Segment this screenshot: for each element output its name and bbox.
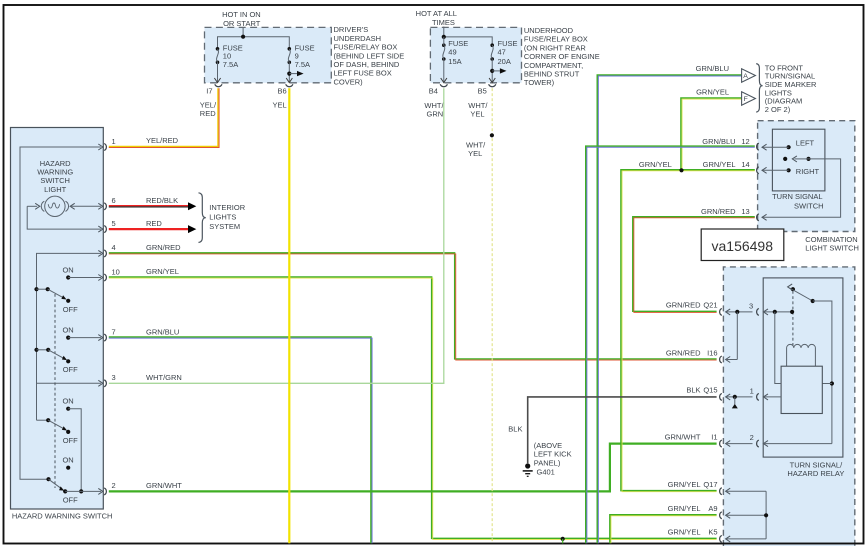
svg-text:12: 12 bbox=[741, 137, 749, 146]
wire BLK: relay Q15 to ground G401 bbox=[528, 397, 717, 463]
svg-text:WHT/GRN: WHT/GRN bbox=[146, 373, 182, 382]
fuse 47 20A bbox=[489, 39, 517, 83]
wire GRN/YEL: switch pin14 row to relay Q17 bbox=[621, 170, 755, 491]
svg-text:I1: I1 bbox=[711, 432, 717, 441]
svg-text:LIGHT: LIGHT bbox=[44, 185, 67, 194]
svg-text:YEL: YEL bbox=[273, 101, 287, 110]
relay rows Q17/A9/K5 link bbox=[726, 488, 769, 542]
connector I16 bbox=[720, 356, 722, 363]
svg-text:DRIVER'S: DRIVER'S bbox=[334, 25, 369, 34]
svg-text:GRN: GRN bbox=[427, 110, 444, 119]
svg-text:2: 2 bbox=[750, 433, 754, 442]
switch section 4 (pin 2) bbox=[46, 456, 103, 505]
hazard warning switch bbox=[11, 128, 104, 510]
svg-text:RED: RED bbox=[146, 219, 162, 228]
relay inner case bbox=[763, 278, 843, 457]
wire: hot feed into driver fuse box bbox=[242, 27, 244, 36]
svg-text:YEL/RED: YEL/RED bbox=[146, 136, 179, 145]
switch section 1 (pin 10) bbox=[34, 266, 103, 315]
svg-text:LIGHT SWITCH: LIGHT SWITCH bbox=[805, 244, 859, 253]
svg-text:OFF: OFF bbox=[63, 436, 78, 445]
switch section 3 bbox=[37, 397, 82, 492]
svg-text:GRN/WHT: GRN/WHT bbox=[146, 481, 182, 490]
svg-text:1: 1 bbox=[750, 386, 754, 395]
connector pin 13 bbox=[757, 214, 759, 221]
svg-text:GRN/YEL: GRN/YEL bbox=[639, 160, 672, 169]
svg-text:6: 6 bbox=[112, 196, 116, 205]
svg-text:SWITCH: SWITCH bbox=[794, 202, 824, 211]
node: fuse box L top junction bbox=[241, 35, 245, 39]
svg-text:GRN/YEL: GRN/YEL bbox=[146, 267, 179, 276]
wire GRN/BLU: to triangle A, down off page bbox=[597, 75, 741, 543]
relay row 2 / I1 bbox=[726, 433, 832, 447]
va156498 label box bbox=[701, 229, 784, 261]
svg-text:GRN/BLU: GRN/BLU bbox=[696, 64, 729, 73]
connector triangle A bbox=[742, 69, 756, 82]
svg-text:OFF: OFF bbox=[63, 496, 78, 505]
svg-text:HOT AT ALL: HOT AT ALL bbox=[416, 9, 457, 18]
node: K5 wire junction bbox=[561, 537, 565, 541]
wire YEL: fuse B6 down off page bbox=[288, 88, 290, 543]
wire WHT/YEL: fuse B5 down off page bbox=[491, 88, 493, 543]
svg-text:INTERIOR: INTERIOR bbox=[209, 203, 245, 212]
svg-text:BLK: BLK bbox=[508, 425, 522, 434]
svg-text:B5: B5 bbox=[478, 86, 487, 95]
svg-text:G401: G401 bbox=[537, 467, 555, 476]
turn signal / hazard relay box bbox=[723, 267, 854, 546]
svg-text:HAZARD WARNING SWITCH: HAZARD WARNING SWITCH bbox=[12, 512, 113, 521]
connector Q21 bbox=[720, 308, 722, 315]
svg-text:GRN/WHT: GRN/WHT bbox=[665, 432, 701, 441]
svg-text:5: 5 bbox=[112, 219, 116, 228]
svg-text:WARNING: WARNING bbox=[37, 168, 73, 177]
relay electronics box bbox=[781, 366, 822, 413]
connector Q15 bbox=[720, 393, 722, 400]
svg-text:COMPARTMENT,: COMPARTMENT, bbox=[524, 61, 583, 70]
svg-text:va156498: va156498 bbox=[712, 238, 774, 254]
svg-text:TOWER): TOWER) bbox=[524, 78, 555, 87]
svg-text:RED/BLK: RED/BLK bbox=[146, 196, 178, 205]
wire GRN/RED: switch pin13 to relay Q21 bbox=[633, 217, 755, 312]
pin 2 connector bbox=[104, 488, 106, 495]
svg-text:ON: ON bbox=[62, 397, 73, 406]
svg-text:Q21: Q21 bbox=[703, 301, 717, 310]
svg-text:7: 7 bbox=[112, 327, 116, 336]
turn signal switch RIGHT contact bbox=[762, 167, 820, 176]
svg-text:WHT/: WHT/ bbox=[468, 101, 488, 110]
svg-text:OR START: OR START bbox=[223, 19, 261, 28]
turn signal switch wiper bbox=[783, 156, 811, 162]
connector B6 bbox=[286, 84, 293, 86]
svg-text:4: 4 bbox=[112, 243, 116, 252]
wire: hot feed into underhood fuse box bbox=[443, 27, 445, 37]
wire: relay contact to pin 2 net bbox=[813, 301, 832, 444]
pin 10 connector bbox=[104, 274, 106, 281]
svg-text:F: F bbox=[744, 96, 748, 103]
turn signal switch bbox=[772, 129, 825, 191]
svg-text:FUSE/RELAY BOX: FUSE/RELAY BOX bbox=[524, 35, 588, 44]
wire: lamp to pin 5 bbox=[27, 206, 101, 229]
node B6 branch bbox=[287, 72, 291, 76]
svg-text:GRN/YEL: GRN/YEL bbox=[668, 528, 701, 537]
svg-text:LEFT KICK: LEFT KICK bbox=[534, 450, 572, 459]
svg-text:FUSE/RELAY BOX: FUSE/RELAY BOX bbox=[334, 43, 398, 52]
svg-text:1: 1 bbox=[112, 137, 116, 146]
svg-text:GRN/YEL: GRN/YEL bbox=[696, 87, 729, 96]
pin 5 connector bbox=[104, 226, 106, 233]
svg-text:UNDERDASH: UNDERDASH bbox=[334, 34, 382, 43]
turn signal switch LEFT contact bbox=[762, 139, 815, 151]
pin 7 connector bbox=[104, 334, 106, 341]
svg-text:LIGHTS: LIGHTS bbox=[209, 213, 236, 222]
node: WHT/YEL splice bbox=[490, 133, 494, 137]
wire RED/BLK: pin6 to interior lights bbox=[109, 205, 188, 207]
svg-text:COVER): COVER) bbox=[334, 77, 364, 86]
svg-text:GRN/RED: GRN/RED bbox=[701, 207, 736, 216]
svg-text:GRN/YEL: GRN/YEL bbox=[668, 480, 701, 489]
driver's underdash fuse/relay box bbox=[205, 27, 332, 82]
fuse 9 7.5A bbox=[286, 43, 314, 82]
mechanical link (dashed) bbox=[54, 294, 56, 488]
svg-text:7.5A: 7.5A bbox=[223, 60, 238, 69]
pin 1 connector bbox=[104, 144, 106, 151]
svg-text:3: 3 bbox=[112, 373, 116, 382]
svg-text:I16: I16 bbox=[707, 348, 717, 357]
connector B5 bbox=[489, 84, 496, 86]
svg-text:GRN/YEL: GRN/YEL bbox=[668, 504, 701, 513]
svg-text:LEFT: LEFT bbox=[796, 139, 815, 148]
svg-text:WHT/: WHT/ bbox=[424, 101, 444, 110]
svg-text:2: 2 bbox=[112, 481, 116, 490]
svg-text:Q17: Q17 bbox=[703, 480, 717, 489]
wire YEL/RED: pin1 to fuse I7 bbox=[109, 88, 218, 146]
relay row 1 / Q15 bbox=[726, 386, 782, 408]
node B5 branch bbox=[490, 69, 494, 73]
pin 4 connector bbox=[104, 250, 106, 257]
wire: row3 branch into electronics bbox=[775, 312, 781, 384]
combination light switch box bbox=[758, 121, 855, 232]
fuse 49 15A bbox=[441, 37, 469, 83]
svg-text:YEL: YEL bbox=[470, 110, 484, 119]
svg-text:OFF: OFF bbox=[63, 305, 78, 314]
connector I1 bbox=[720, 440, 722, 447]
wire: pin 4 internal rail bbox=[37, 253, 102, 420]
connector pin 14 bbox=[757, 167, 759, 174]
wire GRN/YEL: triangle F branch bbox=[681, 98, 742, 170]
relay row 3 / Q21 bbox=[726, 301, 795, 315]
svg-text:10: 10 bbox=[112, 267, 120, 276]
wire GRN/BLU: switch pin12 down off page bbox=[586, 146, 755, 543]
wire: Q21-I16 jumper bbox=[736, 312, 738, 360]
svg-text:7.5A: 7.5A bbox=[295, 60, 310, 69]
svg-text:ON: ON bbox=[62, 266, 73, 275]
svg-text:(ABOVE: (ABOVE bbox=[534, 441, 562, 450]
svg-text:ON: ON bbox=[62, 456, 73, 465]
svg-text:20A: 20A bbox=[498, 57, 511, 66]
svg-text:SYSTEM: SYSTEM bbox=[209, 222, 240, 231]
svg-text:RED: RED bbox=[200, 109, 216, 118]
svg-text:B4: B4 bbox=[429, 86, 438, 95]
underhood fuse/relay box bbox=[430, 27, 521, 82]
svg-text:RIGHT: RIGHT bbox=[796, 167, 820, 176]
svg-text:47: 47 bbox=[498, 47, 506, 56]
wire GRN/BLU: pin7 down off page bbox=[109, 337, 371, 543]
ground G401 bbox=[508, 425, 571, 477]
connector K5 bbox=[720, 535, 722, 542]
brace to front turn/signal lights bbox=[756, 64, 762, 113]
wire RED: pin5 to interior lights bbox=[109, 228, 188, 230]
svg-text:BEHIND STRUT: BEHIND STRUT bbox=[524, 70, 580, 79]
svg-text:SWITCH: SWITCH bbox=[40, 176, 70, 185]
svg-text:TIMES: TIMES bbox=[432, 18, 455, 27]
relay switch contact bbox=[788, 284, 815, 303]
svg-text:I7: I7 bbox=[206, 86, 212, 95]
svg-text:GRN/RED: GRN/RED bbox=[666, 348, 701, 357]
wire GRN/YEL: relay A9 from bottom bbox=[610, 515, 717, 543]
pin 6 connector bbox=[104, 203, 106, 210]
svg-text:13: 13 bbox=[741, 207, 749, 216]
wire: wiper to pin 13 bbox=[762, 159, 841, 217]
wire GRN/YEL: pin10 to relay K5 bbox=[109, 277, 717, 538]
svg-text:A: A bbox=[743, 73, 748, 80]
switch section 2 (pin 7) bbox=[34, 326, 103, 375]
svg-text:WHT/: WHT/ bbox=[466, 141, 486, 150]
connector I7 bbox=[215, 84, 222, 86]
interior lights system brace bbox=[199, 193, 206, 243]
connector pin 12 bbox=[757, 143, 759, 150]
svg-text:GRN/BLU: GRN/BLU bbox=[702, 137, 735, 146]
svg-text:49: 49 bbox=[448, 47, 456, 56]
svg-text:(ON RIGHT REAR: (ON RIGHT REAR bbox=[524, 43, 587, 52]
wire: pin 3 branch bbox=[37, 382, 102, 384]
pin 3 connector bbox=[104, 380, 106, 387]
svg-text:(BEHIND LEFT SIDE: (BEHIND LEFT SIDE bbox=[334, 51, 405, 60]
svg-text:14: 14 bbox=[741, 160, 749, 169]
svg-text:TURN SIGNAL/: TURN SIGNAL/ bbox=[790, 460, 843, 469]
svg-text:OFF: OFF bbox=[63, 365, 78, 374]
svg-text:HOT IN ON: HOT IN ON bbox=[222, 10, 261, 19]
svg-text:CORNER OF ENGINE: CORNER OF ENGINE bbox=[524, 52, 600, 61]
svg-text:GRN/YEL: GRN/YEL bbox=[703, 160, 736, 169]
connector B4 bbox=[440, 84, 447, 86]
relay coil bbox=[787, 344, 816, 366]
svg-text:YEL: YEL bbox=[468, 149, 482, 158]
svg-text:LEFT FUSE BOX: LEFT FUSE BOX bbox=[334, 69, 392, 78]
svg-text:TURN SIGNAL: TURN SIGNAL bbox=[772, 192, 822, 201]
svg-text:3: 3 bbox=[749, 301, 753, 310]
svg-text:2 OF 2): 2 OF 2) bbox=[765, 105, 791, 114]
svg-text:GRN/BLU: GRN/BLU bbox=[146, 327, 179, 336]
node: relay right vertical junction bbox=[830, 381, 834, 385]
svg-text:Q15: Q15 bbox=[703, 386, 717, 395]
relay actuator dashed bbox=[792, 291, 794, 347]
node: fuse box R top junction bbox=[442, 35, 446, 39]
connector triangle F bbox=[742, 92, 756, 105]
svg-text:PANEL): PANEL) bbox=[534, 458, 561, 467]
connector Q17 bbox=[720, 488, 722, 495]
connector A9 bbox=[720, 512, 722, 519]
svg-text:ON: ON bbox=[62, 326, 73, 335]
svg-text:HAZARD RELAY: HAZARD RELAY bbox=[787, 469, 844, 478]
svg-text:UNDERHOOD: UNDERHOOD bbox=[524, 26, 574, 35]
svg-text:GRN/RED: GRN/RED bbox=[666, 301, 701, 310]
wire WHT/GRN: fuse B4 to pin3 bbox=[109, 88, 444, 383]
svg-text:BLK: BLK bbox=[686, 386, 700, 395]
svg-text:K5: K5 bbox=[708, 528, 717, 537]
svg-text:OF DASH, BEHIND: OF DASH, BEHIND bbox=[334, 60, 400, 69]
svg-text:GRN/RED: GRN/RED bbox=[146, 243, 181, 252]
relay row I16 bbox=[726, 357, 731, 363]
svg-text:YEL/: YEL/ bbox=[200, 101, 217, 110]
wire: pin 1 internal rail bbox=[20, 147, 101, 479]
wire GRN/WHT: pin2 to relay I1 bbox=[109, 444, 717, 492]
svg-text:B6: B6 bbox=[278, 86, 287, 95]
svg-text:15A: 15A bbox=[448, 57, 461, 66]
svg-text:A9: A9 bbox=[708, 504, 717, 513]
svg-text:COMBINATION: COMBINATION bbox=[805, 235, 857, 244]
hazard warning switch light (lamp) bbox=[27, 196, 103, 216]
wire GRN/RED: pin4 to relay I16 bbox=[109, 253, 717, 359]
svg-text:HAZARD: HAZARD bbox=[40, 159, 71, 168]
fuse 10 7.5A bbox=[214, 43, 242, 82]
